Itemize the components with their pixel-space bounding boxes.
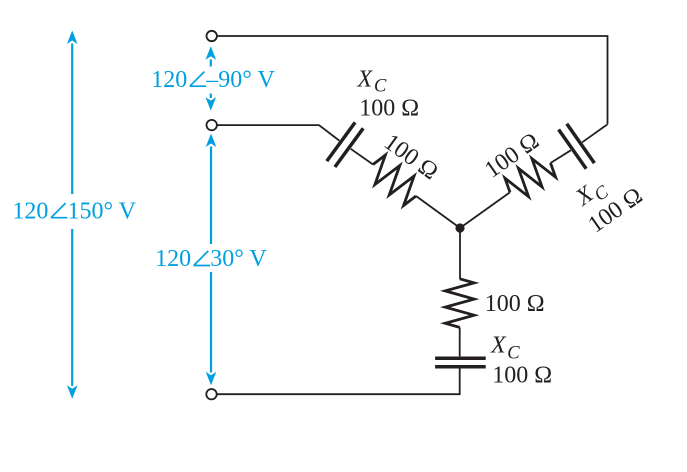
voltage arrow 120angle-90 (between T1 and T2) — [206, 46, 217, 110]
node center junction — [455, 223, 464, 232]
wire capacitor to resistor (left branch) — [351, 149, 373, 165]
wire node down to resistor — [459, 228, 461, 279]
svg-text:100 Ω: 100 Ω — [485, 291, 545, 317]
svg-text:X: X — [490, 333, 507, 359]
wire top from terminal 1 to right corner — [217, 36, 608, 124]
svg-text:C: C — [507, 343, 520, 363]
label XC (right capacitor, rotated) — [570, 173, 612, 216]
wire resistor to node (left branch) — [416, 196, 460, 228]
wire resistor to capacitor (bottom) — [459, 327, 461, 356]
voltage label 120angle150 V — [12, 198, 136, 224]
svg-text:120: 120 — [155, 246, 191, 272]
svg-text:X: X — [357, 66, 374, 92]
wire from terminal 2 — [217, 125, 339, 141]
voltage label 120angle30 V — [155, 246, 267, 272]
svg-text:C: C — [374, 77, 387, 97]
resistor R1 (left branch) — [373, 155, 416, 206]
svg-text:120: 120 — [12, 198, 48, 224]
svg-text:100 Ω: 100 Ω — [492, 362, 552, 388]
capacitor C3 plates (bottom branch) — [435, 358, 486, 367]
terminal 2 — [207, 120, 217, 130]
resistor R2 (right branch) — [505, 159, 556, 197]
label XC (left capacitor) — [357, 66, 388, 96]
terminal 3 — [206, 389, 216, 399]
voltage label 120angle-90 V — [151, 67, 275, 93]
svg-text:100 Ω: 100 Ω — [359, 95, 419, 121]
wire capacitor down and left to terminal 3 — [217, 368, 460, 394]
voltage arrow 120angle150 (full height, left) — [67, 31, 78, 399]
svg-text:–90° V: –90° V — [205, 67, 275, 93]
resistor R3 (bottom branch) — [445, 279, 474, 328]
svg-text:150° V: 150° V — [68, 198, 137, 224]
svg-text:120: 120 — [151, 67, 187, 93]
voltage arrow 120angle30 (between T2 and T3) — [206, 134, 217, 386]
capacitor C2 plates (right branch) — [559, 124, 595, 169]
svg-text:30° V: 30° V — [210, 246, 267, 272]
label XC (bottom capacitor) — [490, 333, 520, 364]
terminal 1 — [207, 31, 217, 41]
wire capacitor to resistor (right branch) — [551, 150, 571, 163]
wire right diagonal corner to capacitor — [582, 124, 607, 142]
wire resistor to node (right branch) — [460, 192, 510, 228]
capacitor C1 plates (left branch) — [327, 122, 363, 167]
